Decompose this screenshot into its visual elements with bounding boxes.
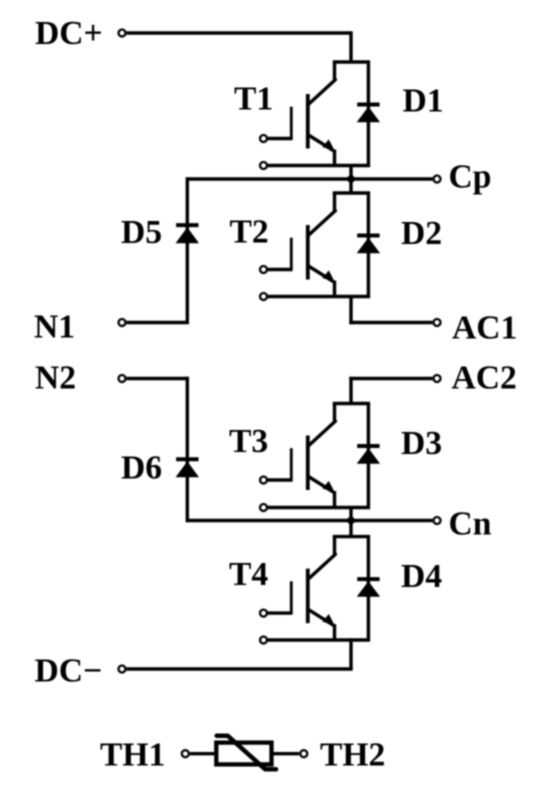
svg-text:Cn: Cn <box>449 506 492 543</box>
label TH1 <box>100 737 165 774</box>
label D2 <box>401 215 442 252</box>
label T4 <box>229 556 268 593</box>
svg-text:N2: N2 <box>35 360 76 397</box>
terminal TH1 <box>182 750 189 757</box>
wire N2 to D6 branch <box>127 377 189 522</box>
terminal TH2 <box>300 750 307 757</box>
transistor T1 <box>291 62 335 166</box>
wire emitter bar of T1 <box>268 164 370 167</box>
svg-text:DC+: DC+ <box>35 15 103 52</box>
svg-text:DC−: DC− <box>35 653 103 690</box>
junction node Cn <box>346 515 357 526</box>
gate terminal of T3 <box>260 477 292 484</box>
wire collector bar of T4 <box>333 535 370 538</box>
wire Cn rail <box>187 519 432 522</box>
svg-text:D5: D5 <box>121 214 162 251</box>
label AC2 <box>452 360 517 397</box>
wire collector bar of T3 <box>333 402 370 405</box>
wire TH2 lead <box>272 752 300 755</box>
label T3 <box>229 423 268 460</box>
label D6 <box>121 450 162 487</box>
transistor T3 <box>291 403 335 507</box>
terminal Cn <box>434 517 441 524</box>
diode D3 <box>357 404 380 508</box>
label DC+ <box>35 15 103 52</box>
wire Cp rail <box>187 177 432 180</box>
wire emitter bar of T2 <box>268 295 370 298</box>
diode D5 <box>176 225 199 243</box>
wire collector bar of T1 <box>333 60 370 63</box>
wire D5 branch vertical <box>186 177 189 322</box>
terminal N1 <box>119 319 126 326</box>
diode D6 <box>176 459 199 477</box>
label Cn <box>449 506 492 543</box>
label Cp <box>449 159 492 196</box>
label N2 <box>35 360 76 397</box>
gate terminal of T4 <box>260 610 292 617</box>
label D3 <box>401 425 442 462</box>
wire T3 emitter to T4 collector <box>349 508 352 537</box>
label D5 <box>121 214 162 251</box>
label D1 <box>403 83 444 120</box>
svg-text:AC1: AC1 <box>452 310 517 347</box>
wire emitter bar of T3 <box>268 506 370 509</box>
terminal AC1 <box>434 319 441 326</box>
terminal DC+ <box>119 30 126 37</box>
label AC1 <box>452 310 517 347</box>
svg-text:D1: D1 <box>403 83 444 120</box>
gate terminal of T2 <box>260 266 292 273</box>
svg-text:T2: T2 <box>230 214 269 251</box>
wire T2 emitter to AC1 <box>349 297 432 325</box>
terminal DC- <box>119 666 126 673</box>
diode D4 <box>357 537 380 640</box>
svg-text:Cp: Cp <box>449 159 492 196</box>
diode D1 <box>357 62 380 166</box>
svg-text:TH2: TH2 <box>320 737 385 774</box>
label D4 <box>401 558 442 595</box>
auxiliary emitter terminal of T3 <box>260 504 267 511</box>
wire DC- rail <box>127 638 353 669</box>
wire AC2 to T3 collector <box>349 377 432 404</box>
transistor T2 <box>291 193 335 297</box>
label T2 <box>230 214 269 251</box>
label T1 <box>234 81 273 118</box>
svg-text:D2: D2 <box>401 215 442 252</box>
gate terminal of T1 <box>260 135 292 142</box>
svg-text:D4: D4 <box>401 558 442 595</box>
svg-text:N1: N1 <box>34 309 75 346</box>
junction node Cp <box>346 174 357 185</box>
svg-text:T4: T4 <box>229 556 268 593</box>
auxiliary emitter terminal of T1 <box>260 162 267 169</box>
svg-text:T1: T1 <box>234 81 273 118</box>
label N1 <box>34 309 75 346</box>
terminal Cp <box>434 176 441 183</box>
wire N1 to D5 <box>127 321 189 324</box>
wire emitter bar of T4 <box>268 638 370 641</box>
thermistor TH <box>216 736 276 770</box>
diode D2 <box>357 193 380 297</box>
svg-text:TH1: TH1 <box>100 737 165 774</box>
wire collector bar of T2 <box>333 191 370 194</box>
svg-text:T3: T3 <box>229 423 268 460</box>
wire T1 emitter to T2 collector <box>349 166 352 194</box>
transistor T4 <box>291 536 335 640</box>
auxiliary emitter terminal of T4 <box>260 637 267 644</box>
svg-text:AC2: AC2 <box>452 360 517 397</box>
wire TH1 lead <box>190 752 216 755</box>
terminal N2 <box>119 375 126 382</box>
svg-text:D3: D3 <box>401 425 442 462</box>
wire DC+ rail <box>127 31 351 62</box>
terminal AC2 <box>434 375 441 382</box>
svg-text:D6: D6 <box>121 450 162 487</box>
label TH2 <box>320 737 385 774</box>
label DC- <box>35 653 103 690</box>
auxiliary emitter terminal of T2 <box>260 293 267 300</box>
